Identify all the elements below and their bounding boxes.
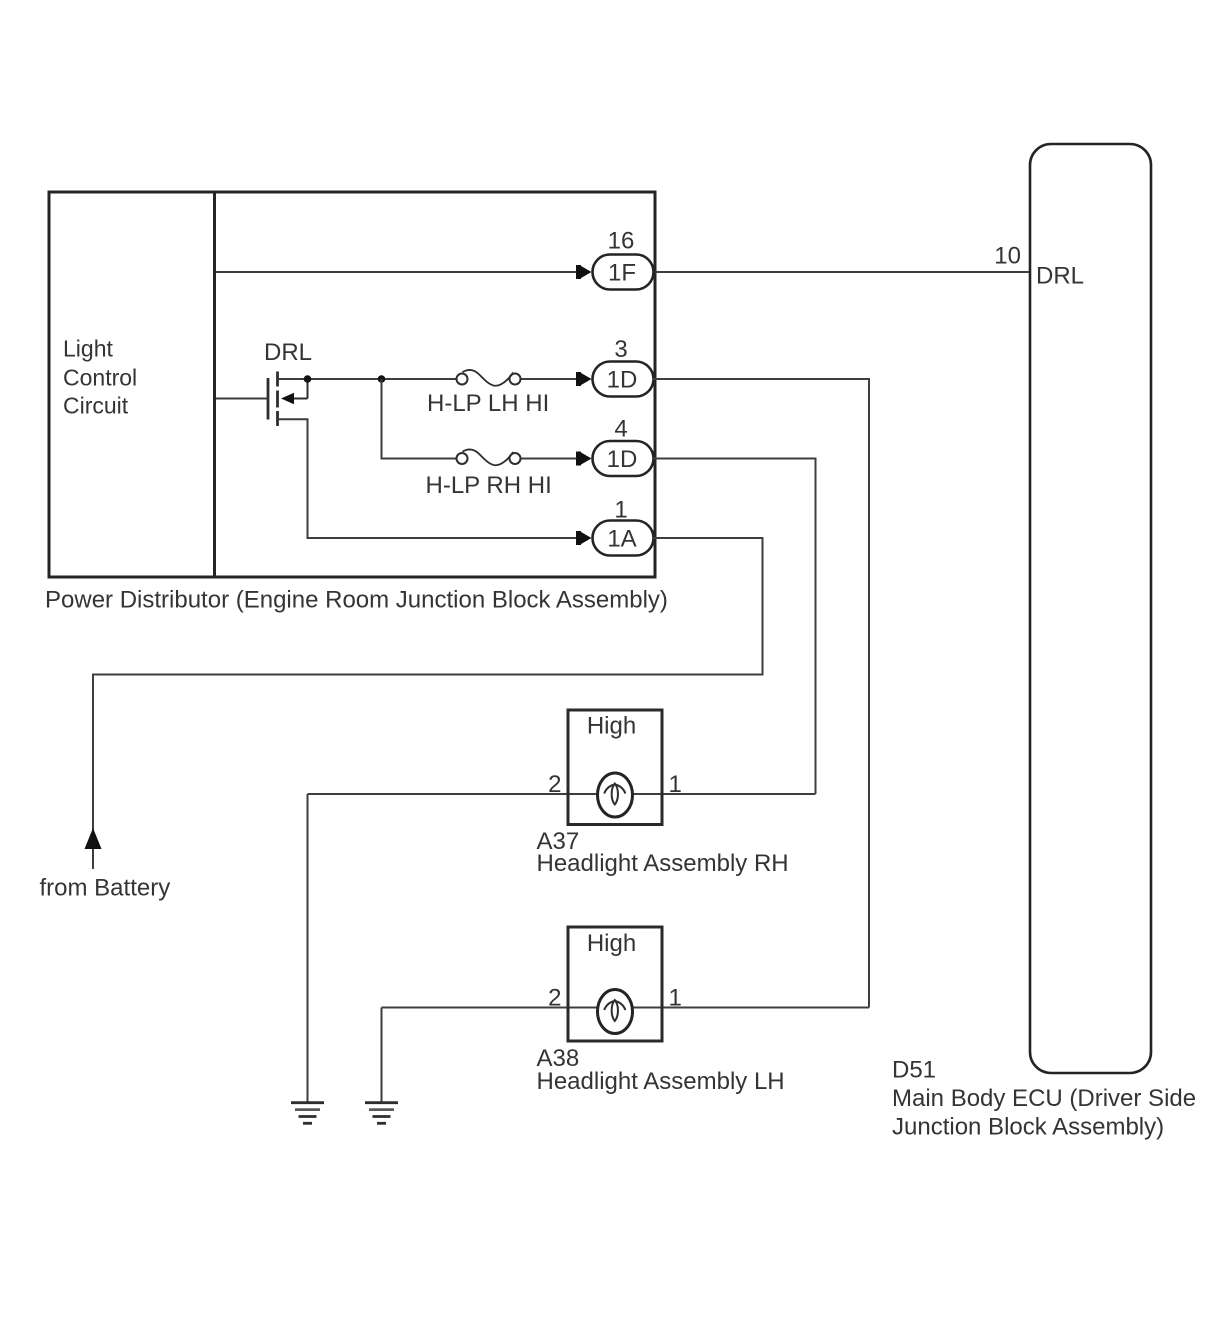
wire 1A to battery <box>93 538 763 869</box>
svg-text:DRL: DRL <box>1036 263 1084 290</box>
battery arrow <box>85 828 102 849</box>
svg-text:from Battery: from Battery <box>40 875 171 902</box>
headlight A38 box <box>568 927 662 1041</box>
wire branch to fuse 2 <box>382 379 457 459</box>
bulb A38 <box>598 990 633 1034</box>
connector arrow into 1A <box>576 531 592 545</box>
svg-text:Control: Control <box>63 365 137 391</box>
ground A37 <box>291 1103 324 1124</box>
svg-text:1D: 1D <box>607 367 638 394</box>
svg-text:Headlight Assembly RH: Headlight Assembly RH <box>537 850 789 877</box>
svg-text:1: 1 <box>669 985 682 1012</box>
svg-text:H-LP RH HI: H-LP RH HI <box>426 472 552 499</box>
wire A37 row <box>308 793 816 795</box>
label Light Control Circuit <box>63 336 137 419</box>
svg-text:1D: 1D <box>607 446 638 473</box>
headlight A37 box <box>568 710 662 825</box>
Power Distributor inner divider <box>213 192 216 577</box>
svg-text:H-LP LH HI: H-LP LH HI <box>427 390 549 417</box>
svg-text:16: 16 <box>608 228 635 255</box>
fuse H-LP LH HI <box>457 370 521 386</box>
svg-text:4: 4 <box>614 416 627 443</box>
svg-text:Headlight Assembly LH: Headlight Assembly LH <box>537 1068 785 1095</box>
connector 1F <box>593 255 654 290</box>
wire 1F left <box>216 271 577 273</box>
wire A38 ground leg <box>381 1008 383 1103</box>
bulb A37 <box>598 773 633 817</box>
connector arrow into 1D pin3 <box>576 372 592 386</box>
svg-text:1: 1 <box>614 497 627 524</box>
svg-text:Power Distributor (Engine Room: Power Distributor (Engine Room Junction … <box>45 587 668 614</box>
svg-text:2: 2 <box>548 771 561 798</box>
svg-text:D51: D51 <box>892 1057 936 1084</box>
svg-text:Main Body ECU (Driver Side: Main Body ECU (Driver Side <box>892 1085 1196 1112</box>
svg-text:Circuit: Circuit <box>63 393 129 419</box>
ECU D51 box <box>1030 144 1151 1073</box>
svg-text:1: 1 <box>669 771 682 798</box>
wire drain <box>278 378 456 380</box>
svg-text:1A: 1A <box>607 526 636 553</box>
fuse H-LP RH HI <box>457 450 521 466</box>
wire A37 ground leg <box>307 794 309 1102</box>
connector 1D pin 3 <box>593 362 654 397</box>
junction dot B <box>378 375 386 383</box>
svg-text:Light: Light <box>63 336 113 362</box>
wire 1D pin3 to A38 <box>653 379 869 1008</box>
wire gate <box>216 398 267 400</box>
svg-text:High: High <box>587 713 636 740</box>
svg-text:10: 10 <box>994 243 1021 270</box>
svg-text:Junction Block Assembly): Junction Block Assembly) <box>892 1114 1164 1141</box>
Power Distributor box <box>49 192 655 577</box>
transistor Q (DRL output MOSFET) <box>268 372 308 427</box>
svg-text:DRL: DRL <box>264 339 312 366</box>
connector arrow into 1F <box>576 265 592 279</box>
connector 1D pin 4 <box>593 441 654 476</box>
svg-text:2: 2 <box>548 985 561 1012</box>
wire source to 1A <box>278 419 577 538</box>
svg-text:3: 3 <box>614 336 627 363</box>
wire 1D pin4 to A37 <box>653 459 816 795</box>
svg-text:1F: 1F <box>608 260 636 287</box>
connector 1A <box>593 521 654 556</box>
wire 1F to ECU <box>653 271 1030 273</box>
junction dot A <box>304 375 312 383</box>
svg-text:High: High <box>587 930 636 957</box>
connector arrow into 1D pin4 <box>576 452 592 466</box>
ground A38 <box>365 1103 398 1124</box>
wire A38 row <box>382 1007 870 1009</box>
